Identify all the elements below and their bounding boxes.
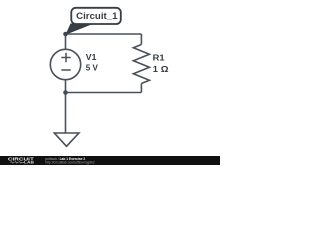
svg-text:R1: R1 bbox=[153, 54, 166, 63]
callout Circuit_1 box bbox=[71, 8, 121, 24]
voltage source V1 circle bbox=[50, 49, 80, 79]
node B junction dot bbox=[63, 90, 68, 95]
footer bar bbox=[0, 156, 220, 165]
callout Circuit_1 tail bbox=[66, 24, 95, 35]
wire: top rail from node A to resistor branch bbox=[66, 33, 142, 35]
wire: resistor top lead bbox=[140, 34, 142, 45]
wire: left branch node A down to V1 top terminal bbox=[65, 34, 67, 50]
ground symbol (triangle) bbox=[54, 133, 79, 146]
node A junction dot (anchor of Circuit_1 label) bbox=[63, 32, 68, 37]
svg-text:5 V: 5 V bbox=[86, 63, 99, 72]
wire: junction B down to ground bbox=[65, 93, 67, 134]
wire: resistor bottom lead bbox=[140, 84, 142, 93]
svg-text:V1: V1 bbox=[86, 53, 97, 62]
svg-text:Circuit_1: Circuit_1 bbox=[76, 11, 118, 22]
wire: V1 bottom terminal down to junction B bbox=[65, 80, 67, 93]
svg-text:1 Ω: 1 Ω bbox=[153, 65, 169, 74]
svg-text:http://circuitlab.com/c/5bw7qg: http://circuitlab.com/c/5bw7qg6k2 bbox=[45, 160, 95, 164]
voltage source V1 minus sign bbox=[61, 69, 70, 71]
wire: bottom rail from junction B to resistor branch bbox=[66, 92, 142, 94]
svg-text:∿∿∿▪LAB: ∿∿∿▪LAB bbox=[10, 160, 35, 164]
resistor R1 zigzag body bbox=[133, 45, 149, 84]
voltage source V1 plus sign bbox=[61, 57, 70, 59]
